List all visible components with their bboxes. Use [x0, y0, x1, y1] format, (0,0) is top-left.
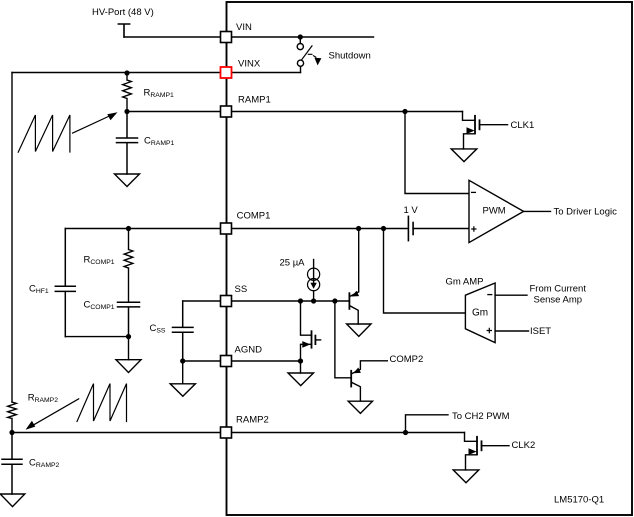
capacitor CCOMP1 — [118, 302, 140, 336]
ground — [347, 324, 371, 336]
svg-text:25 µA: 25 µA — [280, 258, 306, 269]
current source 25uA — [313, 260, 315, 284]
wire VIN inside — [232, 36, 374, 38]
svg-text:LM5170-Q1: LM5170-Q1 — [554, 495, 604, 506]
svg-text:ISET: ISET — [530, 326, 551, 337]
ground — [170, 384, 195, 397]
node COMP2 branch junction — [332, 298, 337, 303]
battery 1V offset — [407, 216, 409, 240]
svg-text:From Current: From Current — [530, 284, 587, 295]
sawtooth waveform ramp2 — [77, 384, 127, 422]
svg-text:Sense Amp: Sense Amp — [534, 295, 583, 306]
capacitor CSS — [173, 301, 194, 361]
wire to CH2 PWM — [406, 415, 449, 433]
pin AGND — [221, 356, 232, 367]
node RAMP2 junction — [9, 430, 14, 435]
wire RAMP2 inside — [232, 432, 465, 434]
svg-text:Shutdown: Shutdown — [329, 51, 371, 62]
pin COMP1 — [221, 223, 232, 234]
capacitor CRAMP2 — [2, 433, 22, 495]
svg-text:VIN: VIN — [236, 22, 252, 33]
IC body LM5170-Q1 — [227, 2, 633, 515]
wire COMP1 inside — [232, 228, 408, 230]
svg-text:CLK2: CLK2 — [512, 440, 536, 451]
svg-text:RAMP1: RAMP1 — [238, 95, 271, 106]
node PWM branch junction — [402, 109, 407, 114]
wire Gm minus input — [495, 294, 527, 296]
wire PWM output — [524, 210, 551, 212]
wire RAMP2 to pin — [12, 432, 221, 434]
switch shutdown — [299, 37, 301, 44]
pin SS — [221, 296, 232, 307]
ground — [288, 373, 314, 386]
ground — [115, 174, 140, 187]
wire VINX to left rail — [12, 72, 221, 74]
ground — [348, 401, 372, 413]
node current source junction — [311, 298, 316, 303]
pin VINX — [221, 67, 232, 78]
node RRAMP1 top junction — [124, 70, 129, 75]
wire left rail down — [11, 73, 13, 403]
transistor CLK1 — [463, 112, 476, 121]
ground — [451, 149, 477, 162]
svg-text:Gm: Gm — [472, 308, 488, 319]
node Gm branch junction — [381, 226, 386, 231]
wire HV-Port to VIN — [124, 36, 221, 38]
node CSS AGND junction — [180, 358, 185, 363]
transistor PNP2 — [350, 371, 352, 387]
svg-text:COMP2: COMP2 — [390, 354, 424, 365]
wire RC junction to RAMP1 pin — [127, 111, 221, 113]
wire to PWM minus input — [405, 112, 469, 194]
wire SS pin to CSS — [183, 300, 221, 302]
svg-text:CLK1: CLK1 — [511, 120, 535, 131]
svg-text:PWM: PWM — [483, 206, 506, 217]
wire AGND inside — [232, 360, 301, 362]
node COMP1 junction — [126, 226, 131, 231]
wire COMP1 network top — [65, 228, 220, 230]
ground — [0, 494, 25, 507]
svg-text:1 V: 1 V — [404, 205, 419, 216]
comparator PWM — [469, 180, 524, 242]
ground — [116, 360, 141, 373]
capacitor CHF1 — [55, 229, 75, 337]
node comp network ground junction — [126, 334, 131, 339]
svg-text:COMP1: COMP1 — [237, 211, 271, 222]
pin RAMP1 — [221, 106, 232, 117]
op-amp Gm — [465, 283, 495, 343]
svg-text:AGND: AGND — [235, 344, 263, 355]
node switch junction — [298, 34, 303, 39]
svg-text:HV-Port (48 V): HV-Port (48 V) — [92, 7, 154, 18]
pin VIN — [221, 32, 232, 43]
wire VINX inside — [232, 72, 301, 74]
svg-text:RAMP2: RAMP2 — [236, 415, 269, 426]
svg-text:VINX: VINX — [238, 59, 261, 70]
sawtooth waveform ramp1 — [18, 115, 70, 152]
shutdown dashed arrow — [308, 54, 316, 57]
HV-Port terminal — [118, 24, 129, 37]
arrow to RC junction — [73, 116, 111, 134]
svg-text:Gm AMP: Gm AMP — [446, 277, 484, 288]
svg-text:To CH2 PWM: To CH2 PWM — [452, 411, 510, 422]
resistor RRAMP2 — [8, 402, 17, 433]
transistor PNP1 — [350, 229, 359, 297]
wire Gm output to PWM plus node — [384, 229, 466, 314]
transistor NMOS SS discharge — [301, 301, 312, 335]
node NMOS drain junction — [298, 298, 303, 303]
svg-text:SS: SS — [235, 284, 248, 295]
ground — [453, 470, 479, 483]
wire Gm plus input ISET — [495, 330, 528, 332]
pin RAMP2 — [221, 427, 232, 438]
wire to COMP2 transistor — [335, 301, 351, 378]
capacitor CRAMP1 — [117, 112, 138, 175]
wire comp network bottom — [65, 336, 128, 338]
node RAMP1 RC junction — [124, 109, 129, 114]
resistor RCOMP1 — [124, 229, 133, 303]
transistor CLK2 — [465, 433, 478, 442]
svg-text:To Driver Logic: To Driver Logic — [554, 207, 618, 218]
resistor RRAMP1 — [123, 73, 132, 112]
wire RAMP1 inside — [232, 111, 463, 113]
node CH2 branch junction — [403, 430, 408, 435]
arrow to RAMP2 junction — [33, 399, 79, 426]
wire SS inside — [232, 300, 350, 302]
wire AGND pin left — [183, 360, 221, 362]
node PNP1 emitter junction — [356, 226, 361, 231]
node AGND ground junction — [298, 358, 303, 363]
